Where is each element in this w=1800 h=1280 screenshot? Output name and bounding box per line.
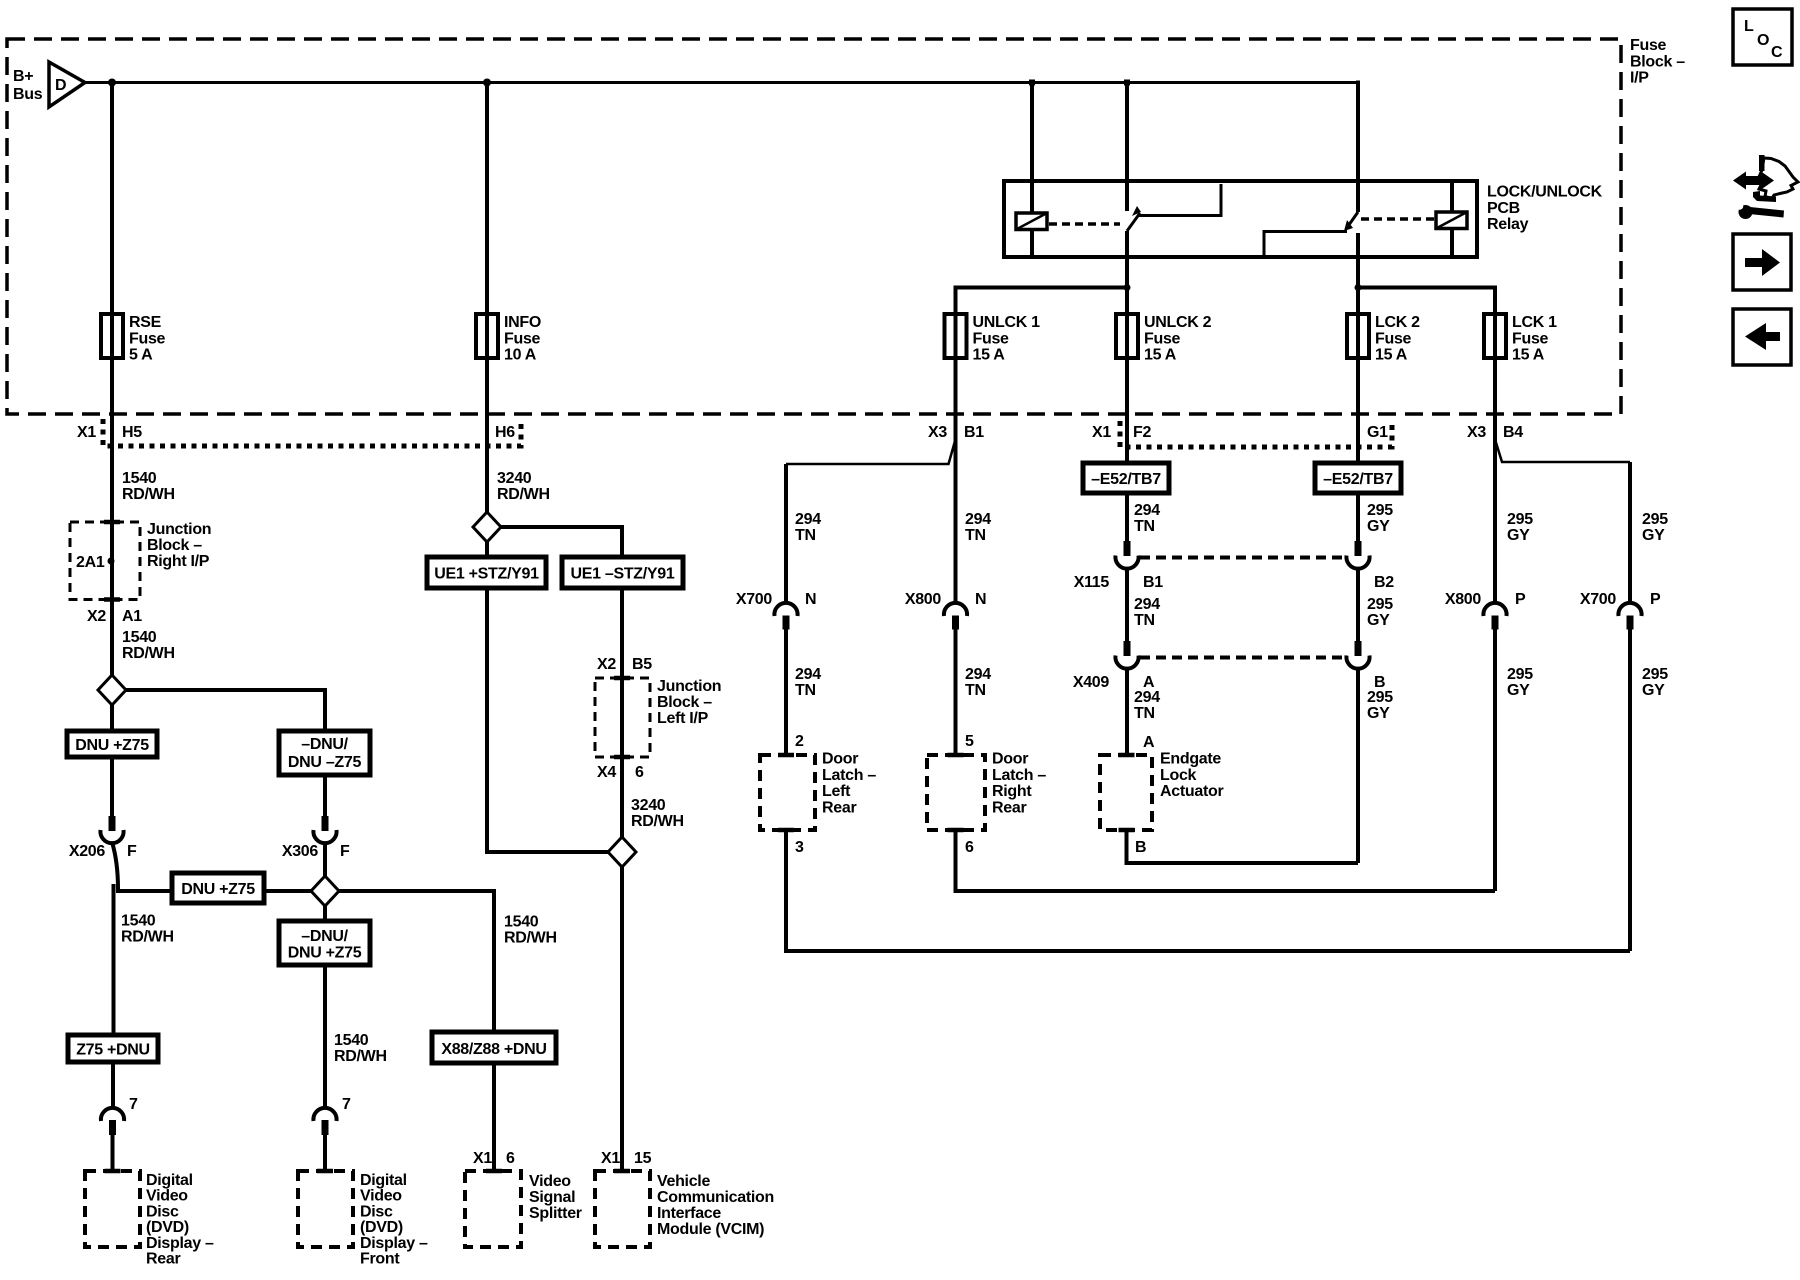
wire: left rear feed down xyxy=(784,464,788,603)
wire: B2 to B xyxy=(1356,568,1360,641)
wire: branch B1 to left rear xyxy=(786,441,955,464)
pin label X2 A1 xyxy=(87,608,142,625)
video signal splitter box xyxy=(465,1169,521,1247)
DVD display front box xyxy=(298,1169,353,1247)
svg-text:X1: X1 xyxy=(473,1150,492,1167)
svg-text:H6: H6 xyxy=(495,424,515,441)
circuit box -E52/TB7 (F2) xyxy=(1083,463,1169,493)
relay switch 1 blade xyxy=(1127,206,1141,231)
svg-text:Splitter: Splitter xyxy=(529,1205,582,1222)
svg-text:Front: Front xyxy=(360,1251,400,1268)
fuse INFO 10A xyxy=(476,310,541,364)
wire: LCK2 fuse down (G1) xyxy=(1356,358,1360,463)
svg-text:295: 295 xyxy=(1507,666,1533,683)
connector pin 7 (DVD front) xyxy=(313,1096,351,1135)
svg-text:B+: B+ xyxy=(13,68,33,85)
svg-text:GY: GY xyxy=(1507,527,1530,544)
svg-text:295: 295 xyxy=(1642,666,1668,683)
pin label X3 B4 xyxy=(1467,424,1523,441)
svg-text:7: 7 xyxy=(342,1096,351,1113)
fuse LCK2 15A xyxy=(1347,310,1420,364)
wire: X115 to X409 xyxy=(1125,568,1129,641)
svg-text:X700: X700 xyxy=(736,591,773,608)
wire: DNU row horizontal left xyxy=(118,889,311,893)
circuit box Z75 +DNU xyxy=(68,1035,158,1062)
wire: UNLCK1 fuse down (B1) xyxy=(954,358,958,603)
connector X1 dotted bracket right xyxy=(1120,421,1392,447)
svg-text:(DVD): (DVD) xyxy=(146,1219,189,1236)
VCIM box xyxy=(595,1169,650,1247)
svg-text:294: 294 xyxy=(965,511,991,528)
svg-text:RD/WH: RD/WH xyxy=(334,1048,387,1065)
wire: S2 to video splitter chain xyxy=(339,891,494,1035)
junction block left I/P xyxy=(595,676,650,760)
connector X115 B1 xyxy=(1074,541,1164,591)
svg-text:5 A: 5 A xyxy=(129,347,153,364)
svg-text:F2: F2 xyxy=(1133,424,1151,441)
svg-text:TN: TN xyxy=(965,527,986,544)
node 2A1 xyxy=(76,554,115,571)
svg-text:DNU +Z75: DNU +Z75 xyxy=(288,945,362,962)
connector pin 7 (DVD rear) xyxy=(101,1096,138,1135)
svg-text:294: 294 xyxy=(1134,596,1160,613)
svg-text:Left: Left xyxy=(822,783,851,800)
fuse block I/P dashed boundary xyxy=(7,39,1621,414)
svg-text:X3: X3 xyxy=(928,424,947,441)
fuse LCK1 15A xyxy=(1484,310,1557,364)
wire: X700 N down xyxy=(784,630,788,756)
svg-text:295: 295 xyxy=(1367,502,1393,519)
pin label X1 15 xyxy=(601,1150,652,1167)
svg-text:X4: X4 xyxy=(597,764,616,781)
svg-text:295: 295 xyxy=(1507,511,1533,528)
wire: bus to RSE fuse xyxy=(110,83,114,315)
svg-text:Block –: Block – xyxy=(1630,53,1685,70)
svg-text:LOCK/UNLOCK: LOCK/UNLOCK xyxy=(1487,184,1603,201)
svg-text:295: 295 xyxy=(1367,596,1393,613)
svg-text:G1: G1 xyxy=(1367,424,1388,441)
wire label 294 TN (F2 mid) xyxy=(1134,596,1160,629)
label: Endgate Lock Actuator xyxy=(1160,751,1223,801)
svg-text:1540: 1540 xyxy=(334,1032,369,1049)
wire: pin 7 to DVD rear xyxy=(111,1135,115,1171)
connector X306 pin F xyxy=(282,816,350,860)
svg-text:I/P: I/P xyxy=(1630,70,1649,87)
svg-text:5: 5 xyxy=(965,733,974,750)
svg-text:X409: X409 xyxy=(1073,674,1110,691)
wire: bus corner to relay switch 2 xyxy=(1356,81,1360,213)
DVD display rear box xyxy=(85,1169,140,1247)
svg-text:GY: GY xyxy=(1507,682,1530,699)
svg-text:3: 3 xyxy=(795,839,804,856)
svg-text:3240: 3240 xyxy=(497,470,532,487)
wire: right rear return xyxy=(956,830,1496,891)
svg-text:Display –: Display – xyxy=(146,1235,214,1252)
wire label 294 TN (F2 upper) xyxy=(1134,502,1160,535)
wire label 3240 RD/WH (upper) xyxy=(497,470,550,503)
wire label 294 TN (B1 chain) xyxy=(965,511,991,544)
label: Digital Video Disc (DVD) Display Front xyxy=(360,1172,428,1268)
svg-text:TN: TN xyxy=(1134,705,1155,722)
wire label 3240 RD/WH (lower) xyxy=(631,797,684,830)
splice S3 xyxy=(473,512,501,542)
svg-text:1540: 1540 xyxy=(504,914,539,931)
wire: switch 2 down to LCK2 fuse xyxy=(1356,233,1360,314)
svg-text:Right I/P: Right I/P xyxy=(147,553,210,570)
label: Fuse Block I/P xyxy=(1630,37,1685,87)
wire: X800 P down xyxy=(1493,630,1497,892)
svg-text:Fuse: Fuse xyxy=(129,330,166,347)
splice S2 xyxy=(311,876,339,906)
svg-text:B4: B4 xyxy=(1503,424,1523,441)
svg-text:H5: H5 xyxy=(122,424,142,441)
svg-text:295: 295 xyxy=(1367,689,1393,706)
svg-text:RD/WH: RD/WH xyxy=(122,645,175,662)
relay box LOCK/UNLOCK PCB Relay xyxy=(1004,181,1477,257)
svg-text:Disc: Disc xyxy=(360,1203,393,1220)
svg-text:X1: X1 xyxy=(601,1150,620,1167)
circuit box -DNU/DNU -Z75 xyxy=(279,731,370,775)
wire label 295 GY (B4 chain) xyxy=(1507,511,1533,544)
connector X1 dotted bracket left xyxy=(103,419,521,446)
svg-text:A1: A1 xyxy=(122,608,142,625)
wire: B down to endgate return xyxy=(1356,668,1360,863)
pin label X1 F2 xyxy=(1092,424,1151,441)
wire: LCK1 fuse down (B4) xyxy=(1493,358,1497,603)
circuit box DNU +Z75 (row) xyxy=(172,873,264,903)
svg-text:2: 2 xyxy=(795,733,804,750)
pin label X1 H5 xyxy=(77,424,142,441)
svg-text:15 A: 15 A xyxy=(973,347,1006,364)
wire: E52 to X115 xyxy=(1125,493,1129,541)
svg-text:GY: GY xyxy=(1367,518,1390,535)
wire label 1540 RD/WH (X206) xyxy=(121,913,174,946)
B+ bus feed triangle D xyxy=(13,62,85,107)
wire label 1540 RD/WH (splitter) xyxy=(504,914,557,947)
svg-text:Left I/P: Left I/P xyxy=(657,710,709,727)
wire label 1540 RD/WH (upper) xyxy=(122,470,175,503)
svg-text:TN: TN xyxy=(795,682,816,699)
svg-text:Rear: Rear xyxy=(146,1251,180,1268)
relay coil 1 xyxy=(1016,213,1047,230)
wire: bus to relay switch 1 xyxy=(1125,83,1129,212)
label: Door Latch Left Rear xyxy=(822,751,876,817)
icon: arrow left box xyxy=(1733,309,1791,365)
circuit box -E52/TB7 (G1) xyxy=(1315,463,1401,493)
wire: S3 down xyxy=(485,542,489,557)
svg-text:Fuse: Fuse xyxy=(1512,330,1549,347)
wire: splice to X306 branch xyxy=(126,690,325,731)
label: Door Latch Right Rear xyxy=(992,751,1046,817)
wire: S4 down to VCIM xyxy=(620,867,624,1171)
junction block right I/P xyxy=(70,520,140,602)
circuit box UE1 -STZ/Y91 xyxy=(562,557,683,588)
wire label 1540 RD/WH (X306 chain) xyxy=(334,1032,387,1065)
svg-text:LCK 2: LCK 2 xyxy=(1375,314,1420,331)
svg-text:Block –: Block – xyxy=(147,537,202,554)
svg-text:TN: TN xyxy=(965,682,986,699)
svg-text:X1: X1 xyxy=(1092,424,1111,441)
node: junction UNLCK xyxy=(1124,284,1131,291)
wire: box to splitter xyxy=(492,1062,496,1171)
svg-text:Video: Video xyxy=(146,1188,188,1205)
svg-text:O: O xyxy=(1757,32,1769,49)
svg-text:D: D xyxy=(55,77,66,94)
wire: left rear return xyxy=(786,830,1630,951)
svg-text:Actuator: Actuator xyxy=(1160,783,1223,800)
label: Junction Block Right I/P xyxy=(147,521,211,570)
svg-text:RD/WH: RD/WH xyxy=(122,486,175,503)
svg-text:Door: Door xyxy=(992,751,1028,768)
svg-text:15: 15 xyxy=(634,1150,652,1167)
wire: X306 to splice S2 xyxy=(323,842,327,876)
svg-text:Rear: Rear xyxy=(822,799,856,816)
svg-text:X115: X115 xyxy=(1074,574,1110,591)
svg-text:C: C xyxy=(1771,44,1783,61)
wire: S2 down xyxy=(323,906,327,921)
wire: switch 1 down to UNLCK2 fuse xyxy=(1125,231,1129,314)
pin label X2 B5 xyxy=(597,656,652,673)
relay coil 2 xyxy=(1436,212,1467,229)
svg-text:X306: X306 xyxy=(282,843,319,860)
wire: box to X206 xyxy=(110,757,114,816)
svg-text:294: 294 xyxy=(1134,502,1160,519)
wire: RSE fuse to junction block xyxy=(110,358,114,675)
door latch left rear box xyxy=(760,753,815,833)
svg-text:Junction: Junction xyxy=(147,521,211,538)
svg-text:294: 294 xyxy=(965,666,991,683)
svg-text:X2: X2 xyxy=(87,608,106,625)
svg-text:–DNU/: –DNU/ xyxy=(301,736,348,753)
svg-text:RD/WH: RD/WH xyxy=(121,929,174,946)
pin label X4 6 xyxy=(597,764,644,781)
svg-text:Block –: Block – xyxy=(657,694,712,711)
svg-text:Communication: Communication xyxy=(657,1189,774,1206)
svg-text:Fuse: Fuse xyxy=(504,330,541,347)
svg-text:Right: Right xyxy=(992,783,1032,800)
dashed link switch 2 to coil 2 xyxy=(1361,217,1434,221)
svg-text:Fuse: Fuse xyxy=(1375,330,1412,347)
svg-text:F: F xyxy=(340,843,350,860)
svg-text:10 A: 10 A xyxy=(504,347,537,364)
node: bus junction relay coil 1 xyxy=(1029,80,1035,86)
endgate lock actuator box xyxy=(1100,753,1152,833)
svg-text:Disc: Disc xyxy=(146,1203,179,1220)
svg-text:LCK 1: LCK 1 xyxy=(1512,314,1557,331)
svg-text:Fuse: Fuse xyxy=(1144,330,1181,347)
svg-text:RD/WH: RD/WH xyxy=(631,813,684,830)
relay switch 2 blade xyxy=(1344,212,1358,231)
wire: Z75 box to pin 7 xyxy=(111,1062,115,1108)
node: bus junction RSE xyxy=(108,79,116,87)
connector X800 N xyxy=(905,591,986,630)
svg-text:–DNU/: –DNU/ xyxy=(301,928,348,945)
svg-text:Endgate: Endgate xyxy=(1160,751,1221,768)
door latch right rear box xyxy=(927,753,985,833)
svg-text:Module (VCIM): Module (VCIM) xyxy=(657,1221,764,1238)
circuit box UE1 +STZ/Y91 xyxy=(427,557,546,588)
svg-text:DNU +Z75: DNU +Z75 xyxy=(75,737,149,754)
svg-text:TN: TN xyxy=(795,527,816,544)
wire: switch 1 fixed contact L xyxy=(1139,184,1221,216)
wire: box to X306 xyxy=(323,775,327,816)
svg-text:Relay: Relay xyxy=(1487,216,1529,233)
svg-text:Fuse: Fuse xyxy=(1630,37,1667,54)
svg-text:X1: X1 xyxy=(77,424,96,441)
wire: UNLCK2 fuse down (F2) xyxy=(1125,358,1129,463)
svg-text:Video: Video xyxy=(529,1173,571,1190)
svg-text:RD/WH: RD/WH xyxy=(504,930,557,947)
icon: service wrench arrow xyxy=(1733,155,1798,219)
svg-text:INFO: INFO xyxy=(504,314,541,331)
wire label 295 GY (G1 mid) xyxy=(1367,596,1393,629)
svg-text:RD/WH: RD/WH xyxy=(497,486,550,503)
svg-text:PCB: PCB xyxy=(1487,200,1520,217)
icon: arrow right box xyxy=(1733,234,1791,290)
svg-text:Latch –: Latch – xyxy=(822,767,876,784)
wire label 295 GY (below X800 P) xyxy=(1507,666,1533,699)
svg-text:UE1 +STZ/Y91: UE1 +STZ/Y91 xyxy=(434,566,539,583)
svg-text:Rear: Rear xyxy=(992,799,1026,816)
label: Junction Block Left I/P xyxy=(657,678,721,727)
wire: branch B4 to X700 P xyxy=(1496,441,1631,462)
label: LOCK/UNLOCK PCB Relay xyxy=(1487,184,1603,234)
wire: coil 2 to relay box bottom xyxy=(1450,229,1454,256)
wire label 294 TN (left rear feed) xyxy=(795,511,821,544)
dashed link coil 1 to switch 1 xyxy=(1049,222,1120,226)
svg-text:Door: Door xyxy=(822,751,858,768)
svg-text:X88/Z88 +DNU: X88/Z88 +DNU xyxy=(441,1041,546,1058)
wire label 295 GY (X700 P feed) xyxy=(1642,511,1668,544)
svg-text:1540: 1540 xyxy=(122,470,157,487)
connector X700 N xyxy=(736,591,816,630)
svg-text:1540: 1540 xyxy=(121,913,156,930)
wire: splice down xyxy=(110,705,114,731)
svg-text:UE1 –STZ/Y91: UE1 –STZ/Y91 xyxy=(570,566,674,583)
svg-text:X3: X3 xyxy=(1467,424,1486,441)
circuit box X88/Z88 +DNU xyxy=(432,1032,556,1063)
wire: B+ bus horizontal xyxy=(85,81,1358,84)
wire: X206 curve to DNU row xyxy=(112,842,172,891)
connector X700 P xyxy=(1580,591,1661,630)
wire: X700 P down xyxy=(1628,630,1632,952)
svg-text:GY: GY xyxy=(1367,705,1390,722)
svg-text:1540: 1540 xyxy=(122,629,157,646)
wire label 294 TN (F2 lower) xyxy=(1134,689,1160,722)
svg-text:F: F xyxy=(127,843,137,860)
svg-text:6: 6 xyxy=(965,839,974,856)
fuse UNLCK1 15A xyxy=(945,310,1041,364)
svg-text:RSE: RSE xyxy=(129,314,162,331)
svg-text:6: 6 xyxy=(506,1150,515,1167)
svg-text:2A1: 2A1 xyxy=(76,554,105,571)
svg-text:N: N xyxy=(805,591,816,608)
svg-text:X800: X800 xyxy=(1445,591,1482,608)
wire: bus to relay coil 1 xyxy=(1030,83,1034,214)
svg-text:15 A: 15 A xyxy=(1512,347,1545,364)
label: Vehicle Communication Interface Module (VCIM) xyxy=(657,1173,774,1238)
dashed link X115 B1-B2 xyxy=(1140,556,1345,560)
svg-text:L: L xyxy=(1744,18,1754,35)
node: bus junction UNLCK2 xyxy=(1124,80,1130,86)
svg-text:UNLCK 1: UNLCK 1 xyxy=(973,314,1041,331)
svg-text:TN: TN xyxy=(1134,518,1155,535)
svg-text:15 A: 15 A xyxy=(1144,347,1177,364)
svg-text:–E52/TB7: –E52/TB7 xyxy=(1323,471,1393,488)
connector B xyxy=(1346,641,1385,691)
svg-text:A: A xyxy=(1143,734,1155,751)
wire: box down to pin 7 front xyxy=(323,965,327,1108)
wire label 294 TN (below X700 N) xyxy=(795,666,821,699)
circuit box -DNU/DNU +Z75 xyxy=(279,921,370,965)
wire: X206 down to Z75 box xyxy=(112,884,116,1035)
svg-text:GY: GY xyxy=(1367,612,1390,629)
svg-text:X206: X206 xyxy=(69,843,106,860)
svg-text:DNU +Z75: DNU +Z75 xyxy=(181,881,255,898)
wire label 294 TN (below X800 N) xyxy=(965,666,991,699)
pin label X3 B1 xyxy=(928,424,984,441)
wire label 295 GY (G1 lower) xyxy=(1367,689,1393,722)
wire: X409 to endgate xyxy=(1125,668,1129,755)
pin label X1 6 xyxy=(473,1150,515,1167)
svg-text:X800: X800 xyxy=(905,591,942,608)
wire: link to LCK1 fuse xyxy=(1358,288,1495,315)
label: Digital Video Disc (DVD) Display Rear xyxy=(146,1172,214,1268)
wire: E52 G1 to B2 xyxy=(1356,493,1360,541)
svg-text:Digital: Digital xyxy=(360,1172,407,1189)
svg-text:–E52/TB7: –E52/TB7 xyxy=(1091,471,1161,488)
svg-text:UNLCK 2: UNLCK 2 xyxy=(1144,314,1212,331)
svg-text:Z75 +DNU: Z75 +DNU xyxy=(76,1042,150,1059)
svg-text:Junction: Junction xyxy=(657,678,721,695)
wire: bus to INFO fuse xyxy=(485,83,489,315)
svg-text:Display –: Display – xyxy=(360,1235,428,1252)
svg-text:TN: TN xyxy=(1134,612,1155,629)
fuse RSE 5A xyxy=(101,310,166,364)
wire: S3 to UE1-STZ xyxy=(501,527,622,557)
svg-text:DNU –Z75: DNU –Z75 xyxy=(288,754,362,771)
svg-text:6: 6 xyxy=(635,764,644,781)
wire: UE1- down to junction block left xyxy=(620,588,624,837)
svg-text:X2: X2 xyxy=(597,656,616,673)
svg-text:Bus: Bus xyxy=(13,86,43,103)
connector X800 P xyxy=(1445,591,1526,630)
node: bus junction INFO xyxy=(483,79,491,87)
svg-text:Interface: Interface xyxy=(657,1205,721,1222)
svg-text:B1: B1 xyxy=(964,424,984,441)
svg-text:B: B xyxy=(1135,839,1146,856)
svg-text:B5: B5 xyxy=(632,656,652,673)
wire: INFO fuse down to splice xyxy=(485,358,489,512)
wire label 1540 RD/WH (lower) xyxy=(122,629,175,662)
svg-text:Digital: Digital xyxy=(146,1172,193,1189)
icon: LOC box xyxy=(1733,9,1792,65)
dashed link X409 A-B xyxy=(1140,656,1345,660)
wire label 295 GY (G1 upper) xyxy=(1367,502,1393,535)
svg-text:Signal: Signal xyxy=(529,1189,575,1206)
circuit box DNU +Z75 xyxy=(67,731,157,757)
svg-text:P: P xyxy=(1515,591,1526,608)
svg-text:Vehicle: Vehicle xyxy=(657,1173,710,1190)
svg-text:B1: B1 xyxy=(1143,574,1163,591)
wire: link to UNLCK1 fuse xyxy=(956,288,1128,315)
wire: coil 1 to relay box bottom xyxy=(1030,230,1034,256)
splice S4 xyxy=(608,837,636,867)
svg-text:P: P xyxy=(1650,591,1661,608)
connector B2 xyxy=(1346,541,1394,591)
svg-text:294: 294 xyxy=(1134,689,1160,706)
svg-text:7: 7 xyxy=(129,1096,138,1113)
